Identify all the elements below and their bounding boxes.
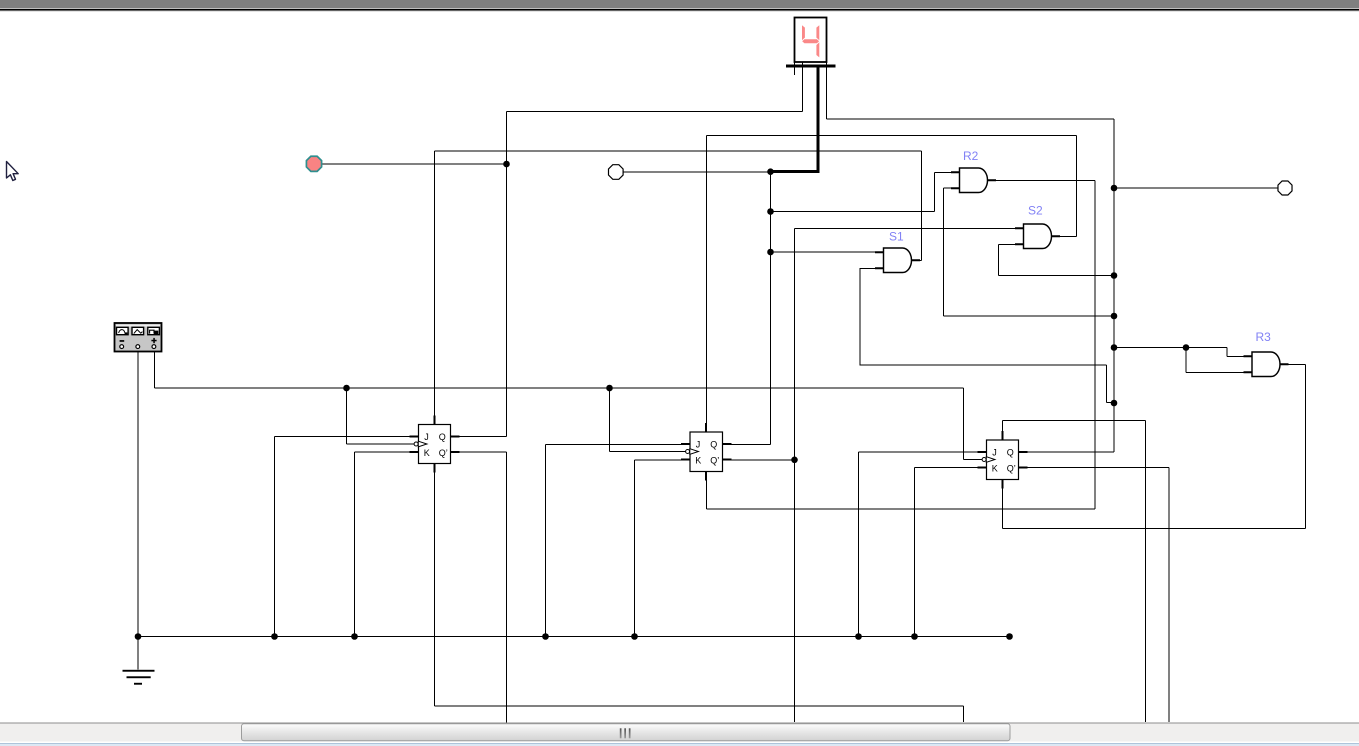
svg-text:Q’: Q’ bbox=[1007, 464, 1016, 474]
svg-text:K: K bbox=[695, 456, 701, 466]
svg-text:S1: S1 bbox=[889, 230, 904, 244]
svg-text:K: K bbox=[992, 464, 998, 474]
svg-text:R2: R2 bbox=[963, 149, 979, 163]
svg-text:Q: Q bbox=[439, 432, 446, 442]
svg-text:Q’: Q’ bbox=[710, 456, 719, 466]
svg-text:Q: Q bbox=[710, 440, 717, 450]
svg-text:J: J bbox=[424, 432, 429, 442]
svg-text:Q’: Q’ bbox=[439, 448, 448, 458]
svg-text:K: K bbox=[424, 448, 430, 458]
svg-text:J: J bbox=[992, 448, 997, 458]
svg-text:Q: Q bbox=[1007, 448, 1014, 458]
svg-text:J: J bbox=[696, 440, 701, 450]
svg-text:S2: S2 bbox=[1028, 204, 1043, 218]
svg-text:R3: R3 bbox=[1256, 330, 1272, 344]
